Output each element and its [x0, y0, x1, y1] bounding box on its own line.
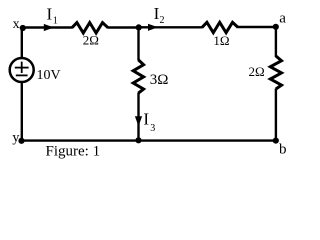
wire right bottom (2Ω to b) — [275, 89, 277, 142]
current arrow I2 — [148, 4, 165, 31]
node b — [273, 138, 287, 158]
svg-text:3Ω: 3Ω — [150, 72, 169, 88]
svg-text:y: y — [12, 131, 19, 146]
svg-text:Figure: 1: Figure: 1 — [46, 144, 101, 160]
wire middle top (node to 3Ω) — [137, 27, 139, 61]
node I2 junction — [136, 24, 142, 30]
svg-text:1Ω: 1Ω — [213, 33, 229, 48]
svg-text:3: 3 — [150, 123, 155, 134]
node bottom-middle junction — [135, 137, 141, 143]
node x — [13, 17, 26, 32]
svg-text:1: 1 — [53, 16, 58, 27]
wire 2Ω to middle node — [108, 26, 140, 28]
wire middle node to 1Ω — [138, 26, 203, 28]
voltage source 10V — [10, 58, 61, 83]
wire right top (a to 2Ω) — [275, 26, 277, 57]
wire bottom (y to b) — [21, 139, 277, 141]
svg-text:2Ω: 2Ω — [249, 64, 265, 79]
wire left top (x to source) — [21, 27, 23, 59]
current arrow I1 — [44, 5, 58, 31]
svg-text:x: x — [13, 17, 20, 32]
svg-text:b: b — [279, 142, 287, 158]
wire top-left (x to 2Ω) — [22, 26, 73, 28]
svg-text:2: 2 — [160, 15, 165, 26]
resistor 2Ω (right vertical) — [249, 56, 282, 89]
svg-text:a: a — [279, 10, 286, 26]
wire 1Ω to node a — [238, 26, 277, 28]
wire middle bottom (3Ω to bottom wire) — [137, 93, 139, 142]
resistor 1Ω (top right horizontal) — [202, 22, 238, 48]
resistor 3Ω (middle vertical) — [133, 60, 168, 93]
svg-text:2Ω: 2Ω — [83, 33, 99, 48]
resistor 2Ω (top horizontal) — [72, 23, 108, 48]
svg-text:10V: 10V — [37, 68, 61, 83]
wire left bottom (source to y) — [21, 82, 23, 142]
node a — [273, 10, 287, 29]
node y — [12, 131, 24, 146]
svg-text:I: I — [47, 5, 53, 24]
svg-text:I: I — [143, 109, 149, 128]
current arrow I3 — [135, 109, 155, 134]
